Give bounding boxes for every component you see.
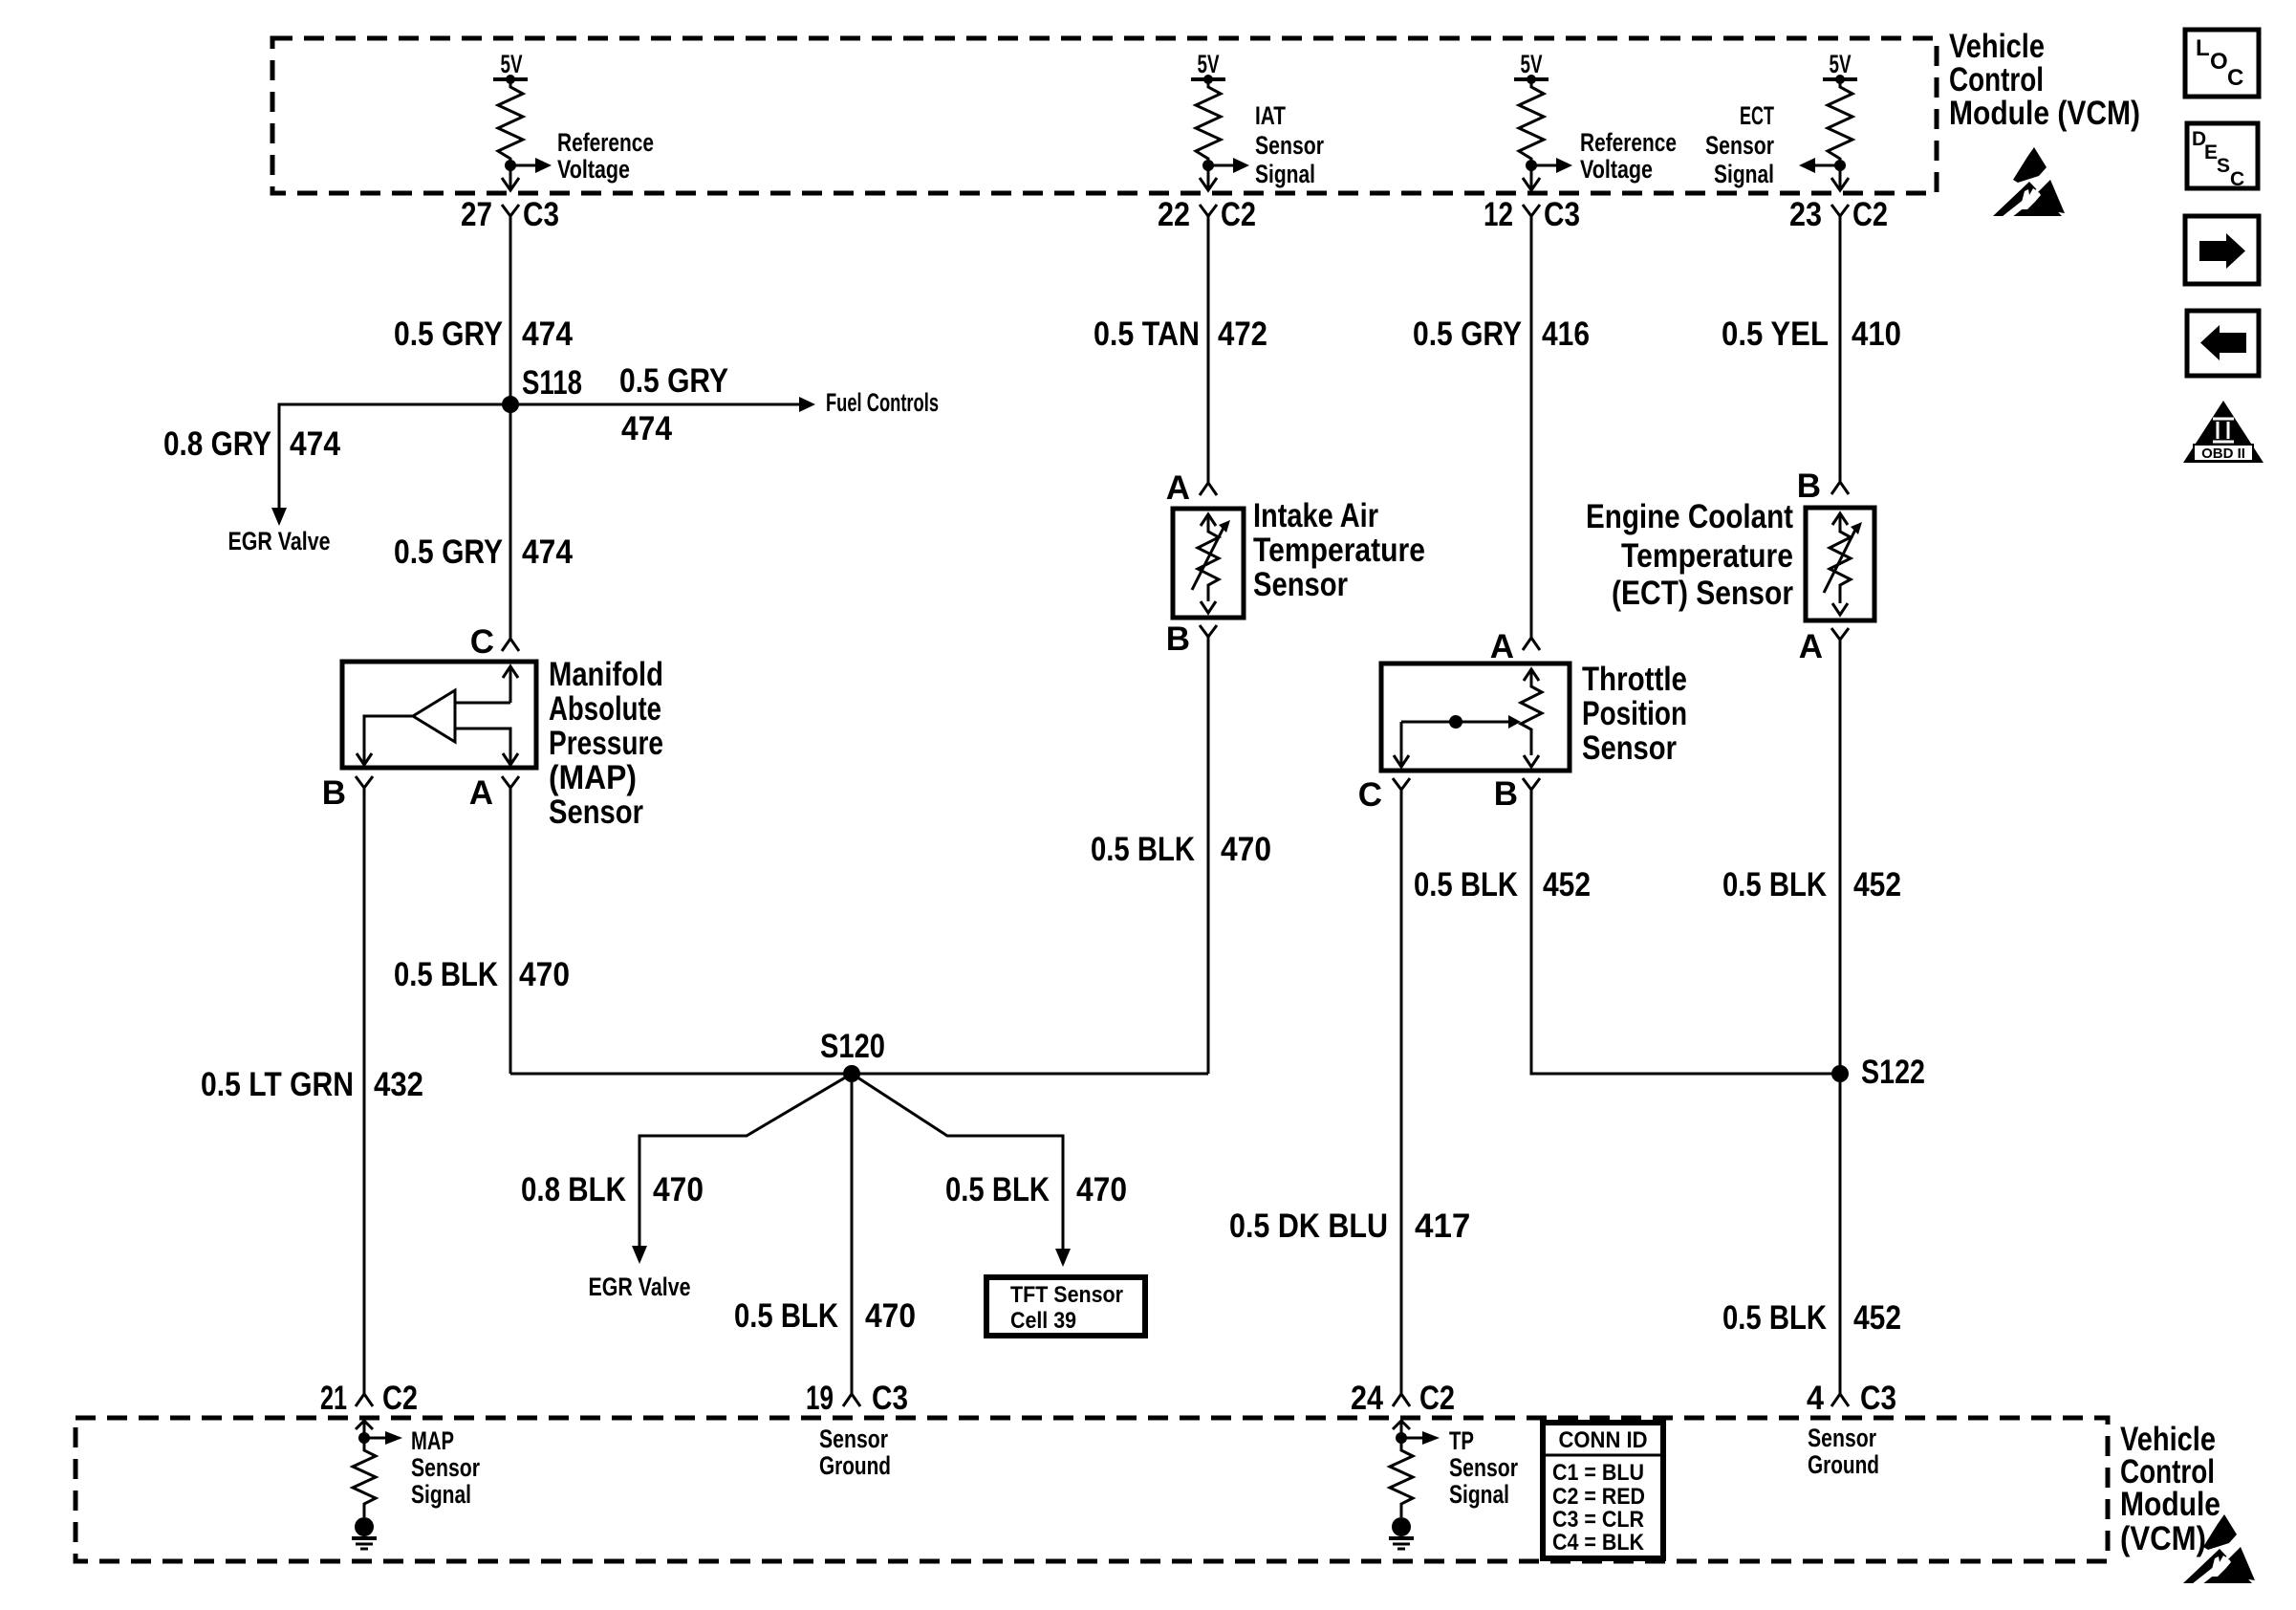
- arrow: to EGR Valve: [271, 508, 287, 526]
- svg-text:Control: Control: [1949, 61, 2044, 98]
- svg-text:ECT: ECT: [1740, 101, 1774, 130]
- wire: right branch of S118 to Fuel Controls: [510, 403, 799, 406]
- pin label 24 C2: [1351, 1380, 1455, 1417]
- svg-text:B: B: [1166, 620, 1190, 658]
- wire: col1 exit with arrowhead at module edge: [502, 165, 519, 190]
- svg-text:Temperature: Temperature: [1253, 532, 1425, 569]
- svg-text:E: E: [2204, 141, 2218, 163]
- arrow: MAP Sensor Signal: [364, 1431, 402, 1445]
- resistor R1 (VCM pull-up, pin 27): [498, 79, 523, 165]
- svg-text:EGR Valve: EGR Valve: [228, 527, 331, 555]
- svg-text:B: B: [322, 774, 346, 812]
- wire: col4 exit with arrowhead at module edge: [1831, 165, 1849, 190]
- svg-text:0.5 BLK: 0.5 BLK: [1091, 831, 1195, 868]
- arrow: to Fuel Controls: [799, 397, 815, 412]
- icon: DESC box: [2187, 123, 2258, 190]
- label: Sensor Ground (pin 19): [819, 1425, 891, 1480]
- svg-text:CONN ID: CONN ID: [1559, 1427, 1648, 1453]
- splice S118: [502, 396, 519, 413]
- splice S122: [1831, 1065, 1849, 1082]
- svg-text:410: 410: [1852, 315, 1901, 353]
- svg-text:Sensor: Sensor: [1808, 1424, 1876, 1452]
- svg-text:472: 472: [1218, 315, 1267, 353]
- svg-text:L: L: [2196, 35, 2210, 61]
- svg-text:0.5 BLK: 0.5 BLK: [394, 956, 498, 993]
- TPS wiper arm with junction dot: [1401, 715, 1521, 729]
- svg-text:Module (VCM): Module (VCM): [1949, 95, 2140, 132]
- svg-text:C: C: [2227, 65, 2243, 91]
- connector symbol pin 24 C2: [1393, 1382, 1410, 1406]
- MAP internal: C entry arrow up: [503, 666, 518, 703]
- svg-text:0.5 GRY: 0.5 GRY: [394, 533, 503, 571]
- thermistor RT2 (ECT): [1824, 513, 1862, 615]
- MAP internal: output line from apex to pin B: [364, 716, 413, 753]
- label: Vehicle Control Module (VCM) bottom: [2120, 1421, 2220, 1557]
- 5V power rail bar col1: [493, 75, 528, 84]
- connector symbol TPS pin B: [1523, 778, 1540, 803]
- wire: 0.5 GRY 474 from pin 27 to S118: [509, 229, 512, 404]
- svg-text:TP: TP: [1449, 1426, 1474, 1455]
- svg-text:A: A: [1799, 628, 1823, 665]
- pin label 27 C3: [461, 196, 559, 233]
- wire label 0.5 BLK 452 (to pin 4): [1722, 1299, 1901, 1337]
- svg-text:470: 470: [653, 1171, 704, 1208]
- svg-text:Sensor: Sensor: [819, 1425, 888, 1453]
- ECT sensor box: [1806, 508, 1874, 620]
- wire label 0.5 YEL 410: [1722, 315, 1901, 353]
- svg-text:A: A: [469, 774, 493, 812]
- wire: left branch of S118 to EGR valve drop: [279, 404, 510, 508]
- svg-text:C2: C2: [1852, 196, 1888, 233]
- svg-text:22: 22: [1158, 196, 1190, 233]
- svg-text:470: 470: [865, 1297, 916, 1335]
- svg-text:Cell 39: Cell 39: [1010, 1308, 1076, 1334]
- svg-text:Temperature: Temperature: [1621, 537, 1793, 575]
- svg-text:Manifold: Manifold: [549, 656, 663, 693]
- svg-text:Sensor: Sensor: [1449, 1453, 1518, 1482]
- op-amp U1 (MAP transducer): [413, 690, 455, 742]
- resistor R4 (VCM pull-up, pin 23): [1828, 79, 1852, 165]
- wire: 0.5 BLK 470 from S120 down to pin 19: [851, 1074, 854, 1391]
- wire label 0.5 DK BLU 417: [1229, 1207, 1470, 1245]
- label: IAT Sensor Signal: [1255, 101, 1324, 188]
- svg-text:Voltage: Voltage: [557, 155, 630, 184]
- svg-text:C: C: [1358, 776, 1382, 814]
- wire: S120 ground bus (MAP A to IAT B): [510, 1073, 1208, 1076]
- label: Reference Voltage col1: [557, 128, 654, 184]
- svg-text:0.5 BLK: 0.5 BLK: [734, 1297, 838, 1335]
- svg-text:C2: C2: [1221, 196, 1256, 233]
- arrow: ECT Sensor Signal col4 (points left): [1799, 158, 1840, 173]
- wire: 0.5 GRY 474 from S118 down to MAP C: [509, 404, 512, 636]
- svg-text:0.5 TAN: 0.5 TAN: [1094, 315, 1200, 353]
- svg-text:432: 432: [374, 1066, 423, 1103]
- svg-text:C3: C3: [872, 1380, 908, 1417]
- svg-text:474: 474: [522, 533, 573, 571]
- TPS wiper drop to pin C with arrow: [1394, 722, 1409, 767]
- arrow: IAT Sensor Signal col2: [1208, 158, 1249, 173]
- arrow: TP Sensor Signal: [1401, 1431, 1440, 1445]
- svg-text:Module: Module: [2120, 1486, 2220, 1523]
- wire: 0.5 BLK 452 from S122 down to pin 4: [1839, 1074, 1842, 1391]
- svg-text:0.5 DK BLU: 0.5 DK BLU: [1229, 1207, 1388, 1245]
- svg-text:Intake Air: Intake Air: [1253, 497, 1378, 534]
- wire label 0.5 BLK 452 (ECT A): [1722, 866, 1901, 903]
- node: IAT signal tap col2: [1202, 160, 1214, 171]
- svg-text:Absolute: Absolute: [549, 690, 661, 728]
- svg-text:0.5 LT GRN: 0.5 LT GRN: [201, 1066, 354, 1103]
- svg-text:416: 416: [1542, 315, 1590, 353]
- Vehicle Control Module (VCM) top dashed enclosure: [272, 38, 1937, 193]
- wire: 0.5 GRY 416 from pin 12 to TPS A: [1530, 229, 1533, 638]
- svg-text:27: 27: [461, 196, 492, 233]
- connector symbol MAP pin A: [502, 776, 519, 801]
- svg-text:12: 12: [1484, 196, 1513, 233]
- pin label 22 C2: [1158, 196, 1256, 233]
- ground: VCM internal ground pin 24: [1389, 1517, 1414, 1549]
- svg-text:Sensor: Sensor: [411, 1453, 480, 1482]
- wire: 0.5 DK BLU 417 from TPS C to pin 24: [1400, 803, 1403, 1391]
- svg-text:A: A: [1166, 469, 1190, 507]
- resistor R6 (VCM input, pin 21): [353, 1438, 376, 1517]
- pin label 21 C2: [320, 1380, 418, 1417]
- svg-text:0.5 GRY: 0.5 GRY: [394, 315, 503, 353]
- svg-text:C2: C2: [382, 1380, 418, 1417]
- svg-text:Sensor: Sensor: [549, 794, 643, 831]
- wire: 0.5 BLK 452 from TPS B to S122: [1531, 803, 1840, 1074]
- arrow: Reference Voltage signal col3: [1531, 158, 1572, 173]
- ESD sensitivity symbol bottom: [2183, 1514, 2255, 1586]
- icon: back arrow box: [2187, 311, 2259, 376]
- svg-text:Sensor: Sensor: [1582, 729, 1677, 767]
- resistor R3 (VCM pull-up, pin 12): [1519, 79, 1544, 165]
- wire label 0.5 GRY / 474 (right branch): [619, 362, 728, 447]
- svg-text:474: 474: [621, 410, 672, 447]
- wire: S120 left fan-out to EGR valve: [639, 1074, 852, 1246]
- ESD sensitivity symbol top: [1993, 147, 2065, 219]
- wire: S120 right fan-out to TFT sensor: [852, 1074, 1063, 1249]
- label: Vehicle Control Module (VCM) top: [1949, 28, 2140, 132]
- wire label 0.5 BLK 470 (MAP A): [394, 956, 570, 993]
- svg-text:0.5 GRY: 0.5 GRY: [619, 362, 728, 400]
- wire: 0.5 BLK 452 from ECT A down to S122: [1839, 653, 1842, 1074]
- arrow: Reference Voltage signal col1: [510, 158, 552, 173]
- 5V power rail bar col4: [1823, 75, 1857, 84]
- icon: LOC box: [2185, 30, 2259, 97]
- wire label 0.5 BLK 470 (TFT branch): [945, 1171, 1127, 1208]
- svg-text:Vehicle: Vehicle: [1949, 28, 2045, 65]
- svg-text:474: 474: [522, 315, 573, 353]
- svg-text:C: C: [470, 623, 494, 661]
- svg-text:C2 = RED: C2 = RED: [1552, 1484, 1645, 1510]
- svg-text:0.5 GRY: 0.5 GRY: [1413, 315, 1522, 353]
- MAP internal: arrow down to pin B: [357, 753, 372, 765]
- arrow: to EGR Valve (S120 branch): [632, 1246, 647, 1264]
- wire label 0.5 BLK 470 (to pin 19): [734, 1297, 916, 1335]
- svg-text:C2: C2: [1419, 1380, 1455, 1417]
- svg-text:S: S: [2217, 155, 2230, 177]
- label: Throttle Position Sensor: [1582, 661, 1687, 767]
- connector symbol MAP pin B: [356, 776, 373, 801]
- svg-text:Sensor: Sensor: [1255, 131, 1324, 160]
- wire label 0.5 BLK 452 (TPS B): [1414, 866, 1591, 903]
- svg-text:S118: S118: [522, 364, 582, 402]
- svg-text:4: 4: [1807, 1380, 1824, 1417]
- svg-text:19: 19: [806, 1380, 834, 1417]
- connector symbol ECT pin A: [1831, 628, 1849, 653]
- node: TP signal tap: [1396, 1432, 1407, 1444]
- svg-text:C3: C3: [523, 196, 559, 233]
- wire label 0.5 TAN 472: [1094, 315, 1267, 353]
- connector symbol IAT pin A: [1200, 480, 1217, 495]
- svg-text:Position: Position: [1582, 695, 1687, 732]
- node: MAP signal tap: [358, 1432, 370, 1444]
- wire label 0.8 GRY 474: [163, 425, 340, 463]
- svg-text:B: B: [1797, 468, 1821, 505]
- svg-text:0.8 GRY: 0.8 GRY: [163, 425, 271, 463]
- wire: 0.5 BLK 470 from IAT B down to S120 bus: [1207, 650, 1210, 1074]
- svg-text:C1 = BLU: C1 = BLU: [1552, 1460, 1644, 1486]
- svg-text:21: 21: [320, 1380, 347, 1417]
- MAP internal: lower line to pin A: [455, 729, 510, 753]
- svg-text:OBD II: OBD II: [2201, 446, 2245, 462]
- svg-text:0.5 BLK: 0.5 BLK: [1414, 866, 1518, 903]
- Vehicle Control Module (VCM) bottom dashed enclosure: [76, 1418, 2108, 1561]
- connector symbol TPS pin A: [1523, 635, 1540, 650]
- 5V power rail bar col3: [1514, 75, 1549, 84]
- arrow: to TFT Sensor: [1055, 1249, 1071, 1267]
- connector symbol pin 27 C3: [502, 205, 519, 229]
- svg-text:23: 23: [1789, 196, 1822, 233]
- wire label 0.5 LT GRN 432: [201, 1066, 423, 1103]
- resistor R2 (VCM pull-up, pin 22): [1196, 79, 1221, 165]
- node: ECT signal tap col4: [1834, 160, 1846, 171]
- svg-text:0.5 BLK: 0.5 BLK: [945, 1171, 1050, 1208]
- wire label 0.5 GRY 474 (upper): [394, 315, 573, 353]
- wire: col3 exit with arrowhead at module edge: [1523, 165, 1540, 190]
- MAP internal: arrow down to pin A: [503, 753, 518, 765]
- VCM internal: entry arrow up pin 24: [1393, 1421, 1410, 1438]
- svg-text:EGR Valve: EGR Valve: [589, 1273, 691, 1301]
- pin label 12 C3: [1484, 196, 1580, 233]
- connector symbol pin 12 C3: [1523, 205, 1540, 229]
- connector symbol pin 23 C2: [1831, 205, 1849, 229]
- connector symbol pin 21 C2: [356, 1382, 373, 1406]
- svg-text:TFT Sensor: TFT Sensor: [1010, 1282, 1123, 1308]
- svg-text:470: 470: [519, 956, 570, 993]
- svg-text:417: 417: [1415, 1207, 1470, 1245]
- svg-text:S120: S120: [820, 1028, 885, 1065]
- svg-text:Engine Coolant: Engine Coolant: [1586, 498, 1793, 535]
- svg-text:Signal: Signal: [1255, 160, 1315, 188]
- resistor R7 (VCM input, pin 24): [1390, 1438, 1413, 1517]
- svg-text:0.5 YEL: 0.5 YEL: [1722, 315, 1829, 353]
- svg-text:452: 452: [1853, 1299, 1901, 1337]
- connector symbol TPS pin C: [1393, 778, 1410, 803]
- label: Manifold Absolute Pressure (MAP) Sensor: [549, 656, 663, 831]
- connector symbol IAT pin B: [1200, 625, 1217, 650]
- svg-text:5V: 5V: [1198, 50, 1220, 78]
- connector symbol pin 19 C3: [843, 1382, 860, 1406]
- thermistor RT1 (IAT): [1192, 514, 1230, 613]
- icon: forward arrow box: [2185, 216, 2259, 284]
- svg-text:0.5 BLK: 0.5 BLK: [1722, 1299, 1827, 1337]
- label: ECT Sensor Signal: [1705, 101, 1774, 188]
- Throttle Position Sensor box: [1381, 664, 1570, 771]
- svg-text:Voltage: Voltage: [1580, 155, 1653, 184]
- svg-text:470: 470: [1076, 1171, 1127, 1208]
- svg-text:470: 470: [1221, 831, 1271, 868]
- wire: 0.5 LT GRN 432 from MAP B to pin 21: [363, 801, 366, 1391]
- svg-text:Pressure: Pressure: [549, 725, 663, 762]
- IAT sensor box: [1173, 509, 1244, 618]
- svg-text:C: C: [2230, 168, 2244, 190]
- wire: 0.5 TAN 472 from pin 22 to IAT A: [1207, 229, 1210, 483]
- svg-text:474: 474: [290, 425, 340, 463]
- pin label 23 C2: [1789, 196, 1888, 233]
- icon: OBD II triangle: [2183, 401, 2264, 463]
- svg-text:0.5 BLK: 0.5 BLK: [1722, 866, 1827, 903]
- svg-text:0.8 BLK: 0.8 BLK: [521, 1171, 626, 1208]
- TFT Sensor Cell 39 reference box: [986, 1277, 1145, 1336]
- wire: 0.5 BLK 470 from MAP A down to S120 bus: [509, 801, 512, 1074]
- label: MAP Sensor Signal: [411, 1426, 480, 1509]
- connector symbol MAP pin C: [502, 636, 519, 651]
- svg-text:C3 = CLR: C3 = CLR: [1552, 1507, 1644, 1533]
- svg-text:C4 = BLK: C4 = BLK: [1552, 1530, 1645, 1556]
- svg-text:IAT: IAT: [1255, 101, 1286, 130]
- wire: 0.5 YEL 410 from pin 23 to ECT B: [1839, 229, 1842, 482]
- label: Reference Voltage col3: [1580, 128, 1677, 184]
- connector symbol pin 22 C2: [1200, 205, 1217, 229]
- svg-text:5V: 5V: [1830, 50, 1852, 78]
- svg-text:(ECT) Sensor: (ECT) Sensor: [1612, 575, 1793, 612]
- wire label 0.8 BLK 470: [521, 1171, 704, 1208]
- VCM internal: entry arrow up pin 21: [356, 1421, 373, 1438]
- svg-text:Sensor: Sensor: [1705, 131, 1774, 160]
- label: Engine Coolant Temperature (ECT) Sensor: [1586, 498, 1793, 612]
- svg-text:Throttle: Throttle: [1582, 661, 1687, 698]
- pin label 19 C3: [806, 1380, 908, 1417]
- svg-text:S122: S122: [1861, 1054, 1925, 1091]
- node: reference voltage tap col1: [505, 160, 516, 171]
- svg-text:Ground: Ground: [1808, 1450, 1879, 1479]
- label: TP Sensor Signal: [1449, 1426, 1518, 1509]
- svg-text:452: 452: [1543, 866, 1591, 903]
- wire label 0.5 GRY 416: [1413, 315, 1590, 353]
- potentiometer R5 (TPS track): [1521, 669, 1542, 767]
- svg-text:Reference: Reference: [1580, 128, 1677, 157]
- svg-text:5V: 5V: [1521, 50, 1543, 78]
- pin label 4 C3: [1807, 1380, 1896, 1417]
- svg-text:A: A: [1490, 628, 1514, 665]
- svg-text:Sensor: Sensor: [1253, 566, 1348, 603]
- ground: VCM internal ground pin 21: [352, 1517, 377, 1549]
- svg-text:B: B: [1494, 775, 1518, 813]
- svg-text:Ground: Ground: [819, 1451, 891, 1480]
- svg-text:(MAP): (MAP): [549, 759, 637, 796]
- label: Intake Air Temperature Sensor: [1253, 497, 1425, 603]
- svg-text:MAP: MAP: [411, 1426, 454, 1455]
- svg-text:C3: C3: [1860, 1380, 1896, 1417]
- wire label 0.5 BLK 470 (IAT B): [1091, 831, 1271, 868]
- svg-text:Reference: Reference: [557, 128, 654, 157]
- svg-text:Signal: Signal: [411, 1480, 471, 1509]
- svg-text:5V: 5V: [501, 50, 523, 78]
- node: reference voltage tap col3: [1526, 160, 1537, 171]
- svg-text:24: 24: [1351, 1380, 1383, 1417]
- svg-text:452: 452: [1853, 866, 1901, 903]
- svg-text:Signal: Signal: [1714, 160, 1774, 188]
- connector symbol pin 4 C3: [1831, 1382, 1849, 1406]
- 5V power rail bar col2: [1191, 75, 1225, 84]
- svg-text:C3: C3: [1544, 196, 1580, 233]
- wire: col2 exit with arrowhead at module edge: [1200, 165, 1217, 190]
- svg-text:Fuel Controls: Fuel Controls: [826, 388, 939, 417]
- connector symbol ECT pin B: [1831, 479, 1849, 494]
- splice S120: [843, 1065, 860, 1082]
- MAP internal: upper feed line: [455, 702, 510, 705]
- MAP sensor box: [342, 662, 536, 768]
- CONN ID legend box: [1543, 1423, 1663, 1558]
- svg-text:(VCM): (VCM): [2120, 1520, 2206, 1557]
- wire label 0.5 GRY 474 (lower): [394, 533, 573, 571]
- svg-text:O: O: [2210, 49, 2228, 75]
- label: Sensor Ground (pin 4): [1808, 1424, 1879, 1479]
- svg-text:Signal: Signal: [1449, 1480, 1509, 1509]
